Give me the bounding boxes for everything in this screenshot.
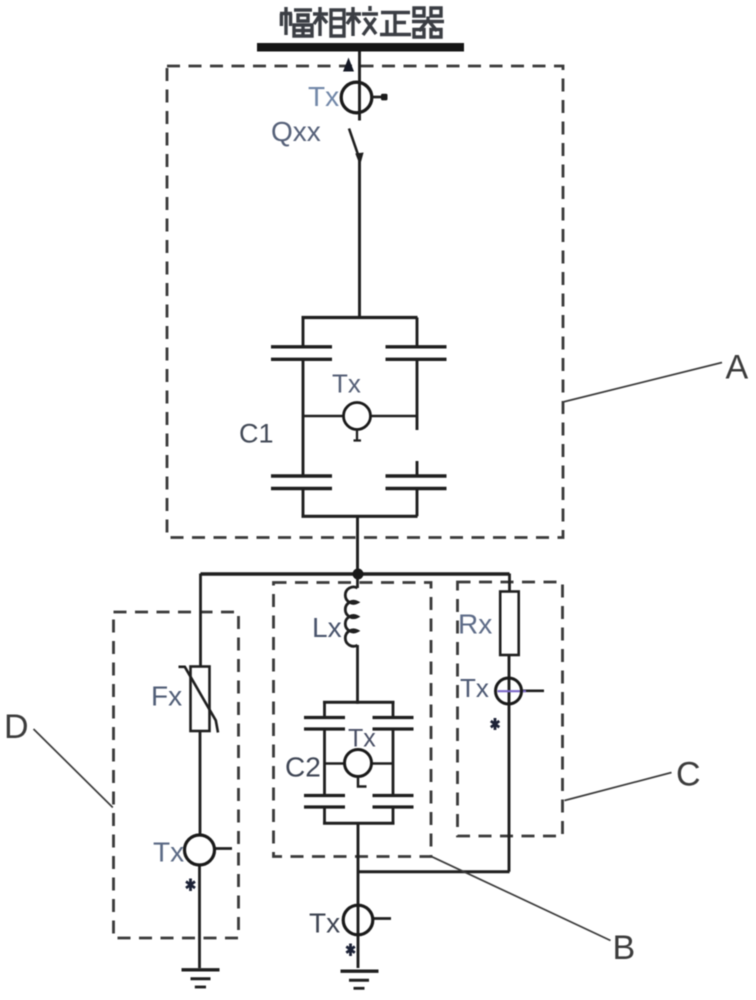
svg-text:Fx: Fx bbox=[151, 681, 182, 712]
svg-text:Tx: Tx bbox=[309, 908, 340, 939]
svg-text:C1: C1 bbox=[239, 419, 274, 449]
svg-text:Rx: Rx bbox=[458, 609, 492, 640]
svg-text:D: D bbox=[4, 708, 29, 746]
svg-text:C: C bbox=[676, 756, 701, 794]
svg-text:Lx: Lx bbox=[312, 612, 342, 643]
svg-text:Tx: Tx bbox=[332, 369, 361, 399]
svg-text:Tx: Tx bbox=[460, 673, 489, 703]
svg-text:Qxx: Qxx bbox=[271, 116, 321, 147]
svg-text:A: A bbox=[726, 349, 749, 387]
svg-text:B: B bbox=[613, 929, 636, 967]
svg-text:Tx: Tx bbox=[348, 725, 376, 753]
svg-text:Tx: Tx bbox=[153, 837, 184, 868]
svg-text:Tx: Tx bbox=[308, 81, 339, 112]
svg-text:C2: C2 bbox=[285, 752, 321, 783]
